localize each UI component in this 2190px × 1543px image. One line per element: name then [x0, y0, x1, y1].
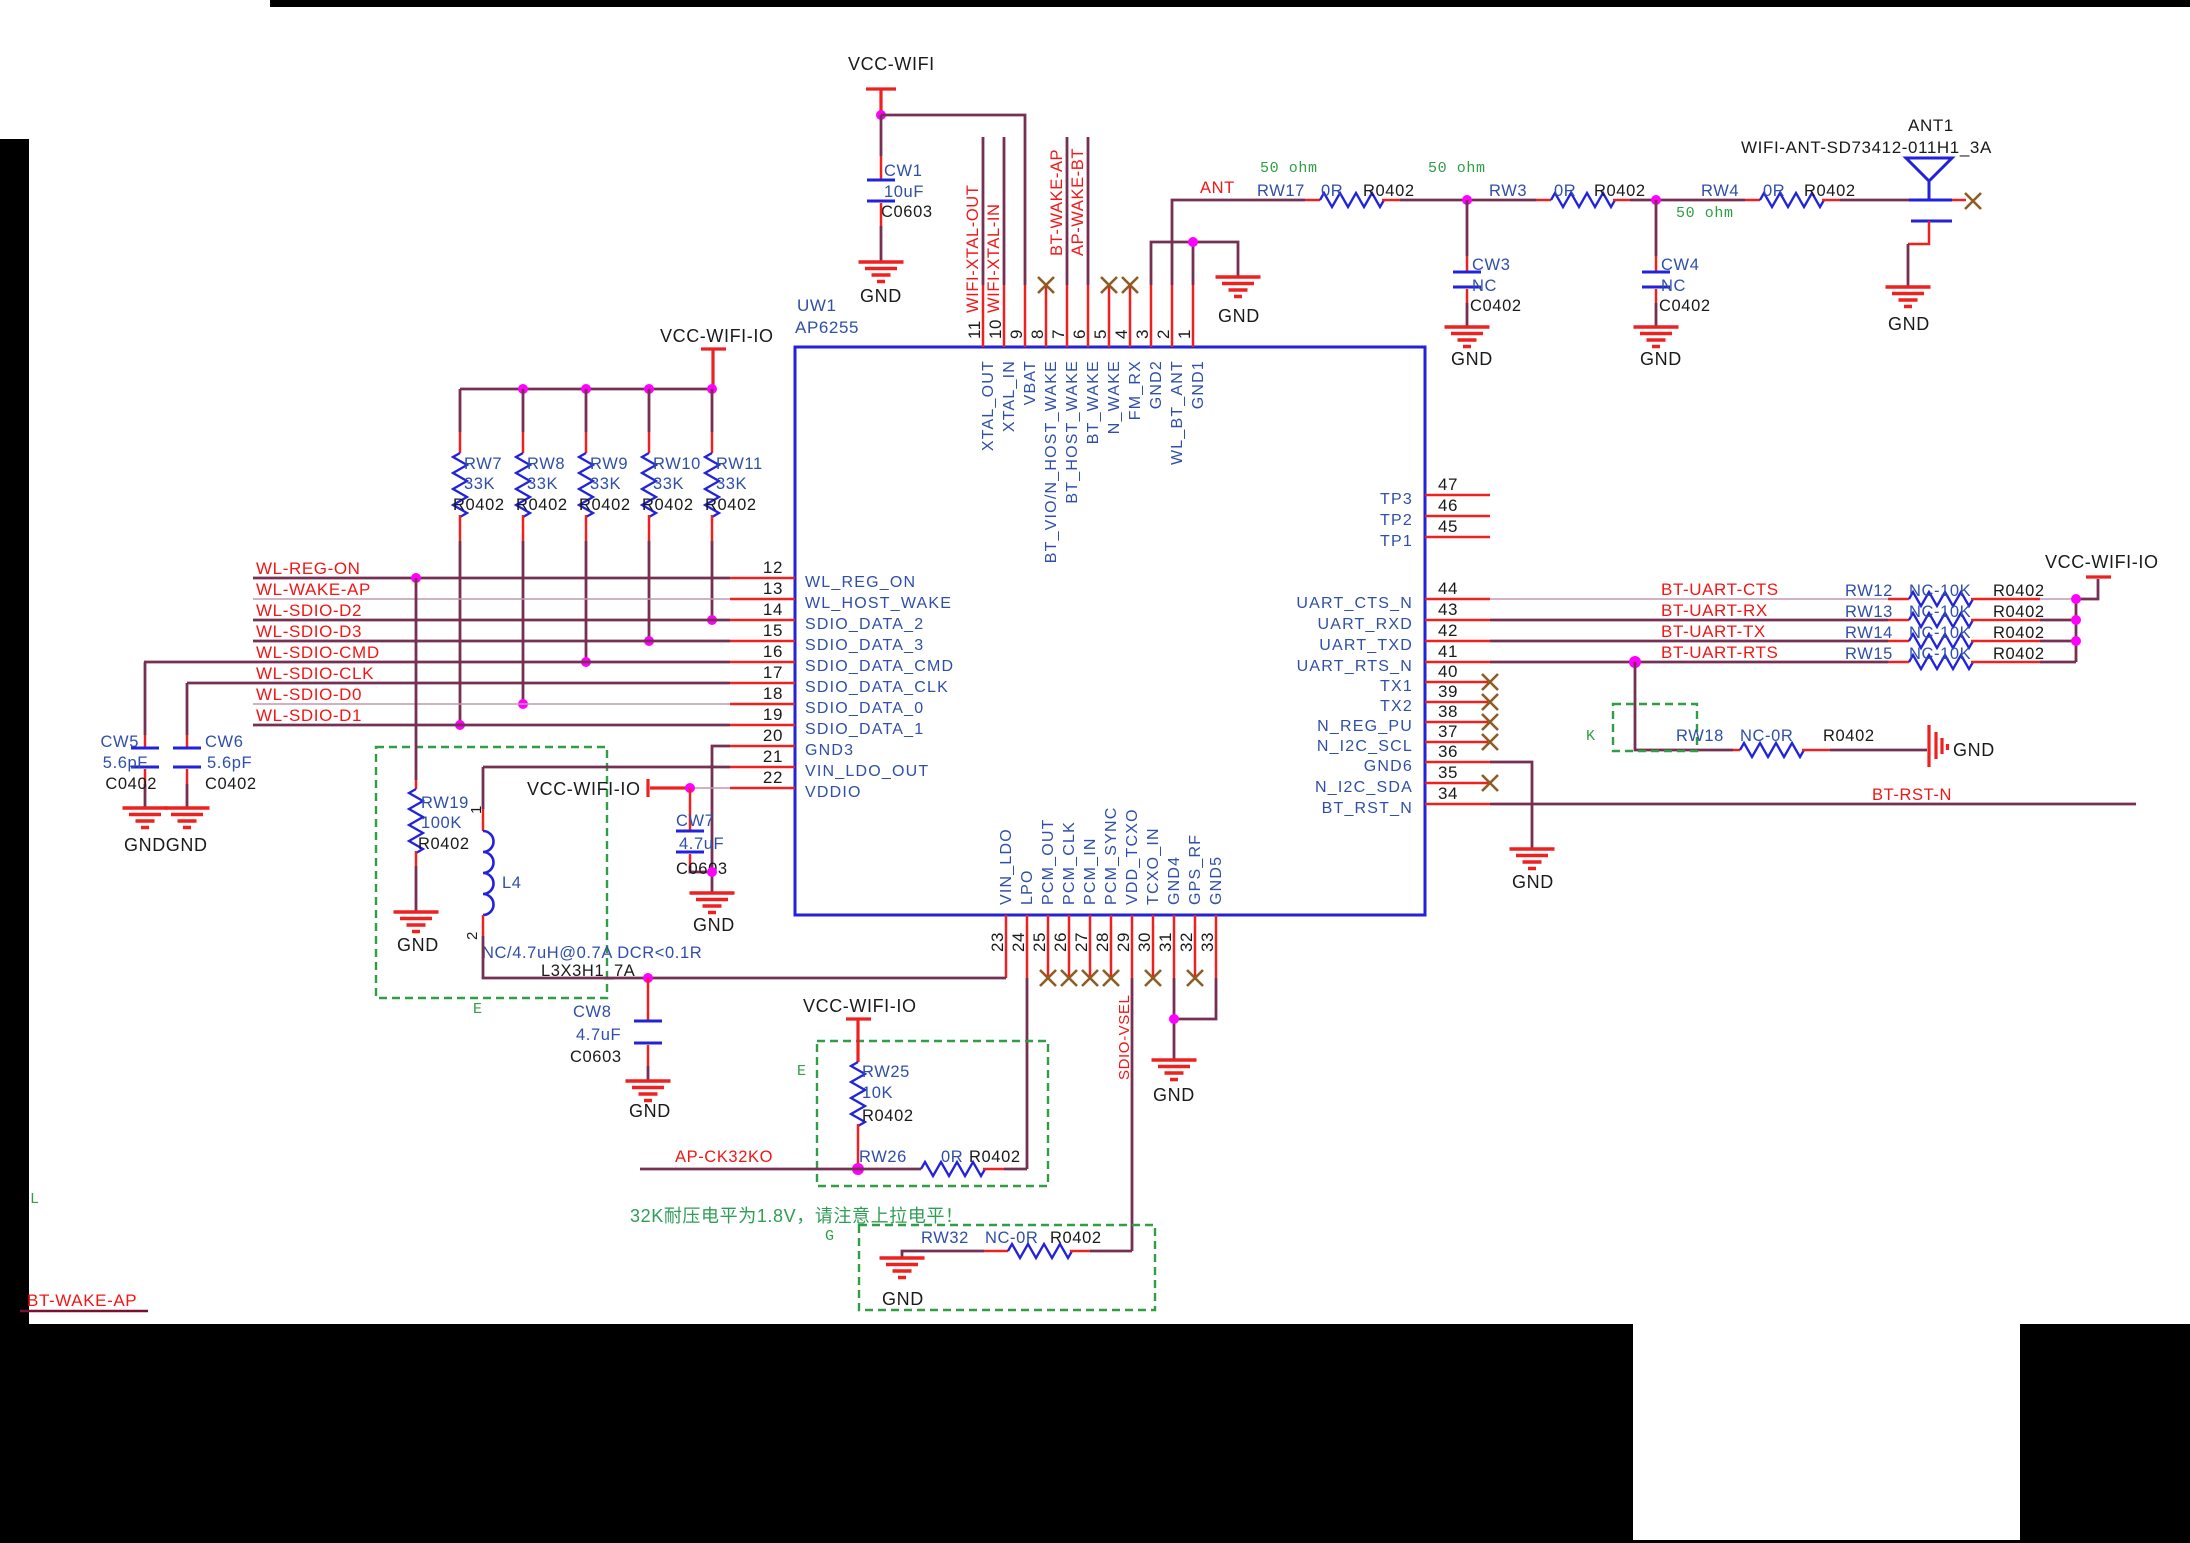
resistor RW32 NC-0R	[984, 1250, 1008, 1253]
pin 47 (TP3) stub	[1425, 494, 1490, 497]
wire pin 7 BT-WAKE-AP	[1066, 137, 1069, 285]
no-connect X pin 40	[1482, 674, 1498, 690]
svg-text:GND2: GND2	[1148, 360, 1165, 409]
svg-text:1: 1	[1175, 329, 1194, 339]
svg-text:RW10: RW10	[653, 455, 701, 473]
no-connect X pin 5	[1101, 277, 1117, 293]
ground below CW1	[859, 262, 904, 282]
pin 3 (GND2) stub	[1150, 285, 1153, 347]
svg-text:15: 15	[763, 621, 783, 640]
ground below CW5	[123, 808, 168, 828]
pin 28 (PCM_SYNC) stub	[1110, 915, 1113, 978]
wire pin 10 WIFI-XTAL-IN	[1003, 137, 1006, 285]
svg-text:VCC-WIFI-IO: VCC-WIFI-IO	[660, 326, 774, 346]
pin 15 (SDIO_DATA_3) stub	[730, 640, 795, 643]
pin 39 (TX2) stub	[1425, 701, 1490, 704]
power VCC-WIFI-IO symbol (VDDIO)	[648, 779, 690, 797]
node junction bus x=649	[644, 384, 654, 394]
svg-text:WIFI-ANT-SD73412-011H1_3A: WIFI-ANT-SD73412-011H1_3A	[1741, 138, 1992, 157]
pin 42 (UART_TXD) stub	[1425, 640, 1490, 643]
wire AP-CK32KO	[640, 1168, 921, 1171]
svg-text:NC-0R: NC-0R	[985, 1229, 1038, 1247]
wire WL-REG-ON	[253, 577, 730, 580]
svg-text:R0402: R0402	[453, 496, 505, 514]
op IC UW1 AP6255 body	[795, 347, 1425, 915]
node junction RW19 on WL-REG-ON	[411, 573, 421, 583]
ground RW18 (rotated)	[1929, 725, 1948, 767]
ground below CW4	[1634, 327, 1679, 347]
svg-text:CW8: CW8	[573, 1003, 611, 1021]
node VCC-WIFI junction	[876, 110, 886, 120]
svg-text:NC: NC	[1661, 277, 1686, 295]
svg-text:4.7uF: 4.7uF	[679, 835, 724, 853]
no-connect X pin 28	[1103, 970, 1119, 986]
svg-text:6: 6	[1070, 329, 1089, 339]
wire WL-WAKE-AP	[253, 598, 730, 600]
pin 36 (GND6) stub	[1425, 761, 1490, 764]
svg-text:RW3: RW3	[1489, 182, 1527, 200]
pin 13 (WL_HOST_WAKE) stub	[730, 598, 795, 601]
ground pins 3,1	[1216, 277, 1261, 297]
node junction pin 31 gnd	[1169, 1014, 1179, 1024]
svg-text:VCC-WIFI-IO: VCC-WIFI-IO	[527, 779, 641, 799]
wire RW8 down to signal row	[522, 541, 525, 704]
svg-text:BT-WAKE-AP: BT-WAKE-AP	[1048, 149, 1066, 256]
svg-text:33K: 33K	[653, 475, 684, 493]
svg-text:UW1: UW1	[797, 296, 837, 315]
svg-text:NC-10K: NC-10K	[1909, 603, 1971, 621]
svg-text:46: 46	[1438, 496, 1458, 515]
svg-text:GPS_RF: GPS_RF	[1187, 834, 1204, 905]
wire RW4 to antenna	[1840, 199, 1909, 202]
svg-text:GND: GND	[1888, 314, 1930, 334]
resistor RW14 NC-10K	[1888, 640, 1909, 643]
resistor RW10 33K pull-up	[648, 389, 651, 432]
pin 6 (BT_WAKE) stub	[1087, 285, 1090, 347]
ground below CW3	[1445, 327, 1490, 347]
pin 43 (UART_RXD) stub	[1425, 619, 1490, 622]
pin 35 (N_I2C_SDA) stub	[1425, 782, 1490, 785]
wire VCC-WIFI down to CW1	[880, 115, 883, 156]
inductor L4	[482, 767, 485, 809]
pin 24 (LPO) stub	[1026, 915, 1029, 978]
svg-text:TX1: TX1	[1380, 678, 1413, 695]
svg-text:BT-RST-N: BT-RST-N	[1872, 786, 1952, 804]
svg-text:5: 5	[1091, 329, 1110, 339]
svg-text:CW3: CW3	[1472, 256, 1510, 274]
wire RW11 down to signal row	[711, 541, 714, 620]
svg-text:50 ohm: 50 ohm	[1428, 160, 1486, 177]
node junction RW10 on row	[644, 636, 654, 646]
capacitor CW4 NC	[1655, 200, 1658, 256]
wire RW9 down to signal row	[585, 541, 588, 662]
pin 33 (GND5) stub	[1215, 915, 1218, 978]
pin 19 (SDIO_DATA_1) stub	[730, 724, 795, 727]
capacitor CW8 4.7uF	[647, 978, 650, 1020]
no-connect X pin 27	[1082, 970, 1098, 986]
svg-text:25: 25	[1030, 932, 1049, 952]
svg-text:TP3: TP3	[1380, 491, 1413, 508]
svg-text:G: G	[825, 1228, 835, 1245]
resistor RW8 33K pull-up	[522, 389, 525, 432]
svg-text:29: 29	[1114, 932, 1133, 952]
assembly box G (RW32)	[859, 1225, 1155, 1310]
svg-text:28: 28	[1093, 932, 1112, 952]
svg-text:C0402: C0402	[205, 775, 257, 793]
svg-text:36: 36	[1438, 742, 1458, 761]
assembly box E (RW25/RW26)	[817, 1041, 1048, 1186]
svg-text:GND5: GND5	[1208, 856, 1225, 905]
svg-text:32: 32	[1177, 932, 1196, 952]
svg-text:39: 39	[1438, 682, 1458, 701]
svg-text:VBAT: VBAT	[1022, 360, 1039, 405]
svg-text:R0402: R0402	[862, 1107, 914, 1125]
svg-text:K: K	[1586, 728, 1596, 745]
svg-text:26: 26	[1051, 932, 1070, 952]
svg-text:PCM_SYNC: PCM_SYNC	[1103, 806, 1120, 905]
svg-text:GND: GND	[1640, 349, 1682, 369]
svg-text:50 ohm: 50 ohm	[1260, 160, 1318, 177]
wire CW1 to GND	[880, 203, 883, 226]
svg-text:R0402: R0402	[579, 496, 631, 514]
pin 2 (WL_BT_ANT) stub	[1171, 285, 1174, 347]
svg-text:R0402: R0402	[1363, 182, 1415, 200]
node junction CW8	[643, 973, 653, 983]
assembly box E (RW19/L4)	[376, 747, 607, 998]
node junction bus x=712	[707, 384, 717, 394]
resistor RW9 33K pull-up	[585, 389, 588, 432]
svg-text:TX2: TX2	[1380, 698, 1413, 715]
svg-text:R0402: R0402	[1993, 645, 2045, 663]
wire BT-UART-RTS	[1490, 661, 1888, 664]
svg-text:TP1: TP1	[1380, 533, 1413, 550]
pin 5 (N_WAKE) stub	[1108, 285, 1111, 347]
svg-text:GND: GND	[397, 935, 439, 955]
svg-text:41: 41	[1438, 642, 1458, 661]
capacitor CW6 5.6pF	[186, 735, 189, 747]
no-connect X pin 37	[1482, 734, 1498, 750]
svg-text:BT_WAKE: BT_WAKE	[1085, 360, 1102, 444]
pin 34 (BT_RST_N) stub	[1425, 803, 1490, 806]
no-connect X pin 8	[1038, 277, 1054, 293]
svg-text:SDIO-VSEL: SDIO-VSEL	[1116, 995, 1133, 1080]
pin 44 (UART_CTS_N) stub	[1425, 598, 1490, 601]
svg-text:50 ohm: 50 ohm	[1676, 205, 1734, 222]
wire WL-SDIO-D0	[253, 703, 730, 705]
pin 25 (PCM_OUT) stub	[1047, 915, 1050, 978]
svg-text:VCC-WIFI-IO: VCC-WIFI-IO	[803, 996, 917, 1016]
wire BT-UART-TX	[1490, 640, 1888, 643]
svg-text:C0402: C0402	[105, 775, 157, 793]
svg-text:10K: 10K	[862, 1084, 893, 1102]
svg-text:GND: GND	[882, 1289, 924, 1309]
wire common vertical to VCC-WIFI-IO	[2076, 579, 2098, 662]
pin 4 (FM_RX) stub	[1129, 285, 1132, 347]
svg-text:11: 11	[965, 320, 984, 339]
svg-text:31: 31	[1156, 932, 1175, 952]
svg-text:47: 47	[1438, 475, 1458, 494]
pin 7 (BT_HOST_WAKE) stub	[1066, 285, 1069, 347]
svg-text:WL-SDIO-CLK: WL-SDIO-CLK	[256, 664, 374, 683]
svg-text:4.7uF: 4.7uF	[576, 1026, 621, 1044]
svg-text:LPO: LPO	[1019, 869, 1036, 905]
border strip bottom gap	[1633, 1540, 2020, 1543]
svg-text:3: 3	[1133, 329, 1152, 339]
svg-text:N_I2C_SCL: N_I2C_SCL	[1317, 738, 1413, 755]
no-connect X pin 4	[1122, 277, 1138, 293]
pin 11 (XTAL_OUT) stub	[982, 285, 985, 347]
svg-text:GND: GND	[1512, 872, 1554, 892]
svg-text:RW14: RW14	[1845, 624, 1893, 642]
svg-text:SDIO_DATA_CLK: SDIO_DATA_CLK	[805, 679, 949, 696]
svg-text:19: 19	[763, 705, 783, 724]
svg-text:GND: GND	[1953, 740, 1995, 760]
wire RW7 down to signal row	[459, 541, 462, 725]
svg-text:21: 21	[763, 747, 783, 766]
power VCC-WIFI-IO symbol (uart)	[2086, 575, 2111, 578]
pin 46 (TP2) stub	[1425, 515, 1490, 518]
wire WL-SDIO-D3	[253, 640, 730, 643]
wire pin 11 WIFI-XTAL-OUT	[982, 137, 985, 285]
pin 14 (SDIO_DATA_2) stub	[730, 619, 795, 622]
svg-text:37: 37	[1438, 722, 1458, 741]
wire pin 36 GND6 to ground	[1490, 762, 1532, 849]
svg-text:E: E	[797, 1063, 807, 1080]
svg-text:AP-CK32KO: AP-CK32KO	[675, 1148, 773, 1166]
node junction RW25/RW26	[852, 1163, 864, 1175]
svg-text:GND: GND	[693, 915, 735, 935]
svg-text:GND: GND	[1153, 1085, 1195, 1105]
svg-text:BT-UART-RX: BT-UART-RX	[1661, 601, 1768, 620]
resistor RW3 0R	[1536, 199, 1551, 202]
ground below CW8	[626, 1081, 671, 1101]
svg-text:R0402: R0402	[516, 496, 568, 514]
pin 31 (GND4) stub	[1173, 915, 1176, 978]
resistor RW25 10K	[851, 1062, 865, 1126]
power VCC-WIFI symbol	[866, 89, 896, 113]
wire WL-SDIO-D2	[253, 619, 730, 622]
svg-text:N_I2C_SDA: N_I2C_SDA	[1315, 779, 1413, 796]
pin 38 (N_REG_PU) stub	[1425, 721, 1490, 724]
svg-text:45: 45	[1438, 517, 1458, 536]
no-connect X pin 38	[1482, 714, 1498, 730]
svg-text:N_WAKE: N_WAKE	[1106, 360, 1123, 434]
wire VCC-WIFI to pin 9 VBAT	[881, 115, 1025, 285]
svg-text:16: 16	[763, 642, 783, 661]
svg-text:22: 22	[763, 768, 783, 787]
svg-text:100K: 100K	[421, 814, 462, 832]
svg-text:RW18: RW18	[1676, 727, 1724, 745]
node junction RW11 on row	[707, 615, 717, 625]
resistor RW7 33K pull-up	[459, 389, 462, 432]
border block bottom-right	[2020, 1324, 2190, 1543]
pin 10 (XTAL_IN) stub	[1003, 285, 1006, 347]
ground below antenna	[1886, 287, 1931, 307]
pin 23 (VIN_LDO) stub	[1005, 915, 1008, 978]
pin 30 (TCXO_IN) stub	[1152, 915, 1155, 978]
svg-text:WIFI-XTAL-IN: WIFI-XTAL-IN	[985, 203, 1003, 313]
svg-text:7: 7	[1049, 329, 1068, 339]
svg-text:CW7: CW7	[676, 812, 714, 830]
svg-text:33K: 33K	[716, 475, 747, 493]
wire RW26 to pin 24	[1004, 1168, 1027, 1171]
node junction pins 3,1 gnd	[1188, 237, 1198, 247]
pin 21 (VIN_LDO_OUT) stub	[730, 766, 795, 769]
capacitor CW1	[867, 180, 895, 201]
wire WL-SDIO-D1	[253, 724, 730, 727]
pin 40 (TX1) stub	[1425, 681, 1490, 684]
pin 32 (GPS_RF) stub	[1194, 915, 1197, 978]
power VCC-WIFI-IO symbol (pull-ups)	[701, 349, 726, 387]
wire pin 21 VIN_LDO_OUT to L4	[483, 766, 730, 769]
svg-text:WL-REG-ON: WL-REG-ON	[256, 559, 361, 578]
node junction uart pull x=2076 y=641	[2071, 636, 2081, 646]
svg-text:RW7: RW7	[464, 455, 502, 473]
resistor RW18 NC-0R	[1733, 749, 1740, 752]
svg-text:BT-UART-RTS: BT-UART-RTS	[1661, 643, 1778, 662]
svg-text:14: 14	[763, 600, 783, 619]
svg-text:20: 20	[763, 726, 783, 745]
svg-text:R0402: R0402	[642, 496, 694, 514]
svg-text:GND4: GND4	[1166, 856, 1183, 905]
border bar top	[270, 0, 2190, 7]
pin 9 (VBAT) stub	[1024, 285, 1027, 347]
pin 16 (SDIO_DATA_CMD) stub	[730, 661, 795, 664]
svg-text:WL-SDIO-D2: WL-SDIO-D2	[256, 601, 362, 620]
svg-text:R0402: R0402	[418, 835, 470, 853]
svg-text:VDDIO: VDDIO	[805, 784, 862, 801]
resistor RW11 33K pull-up	[711, 389, 714, 432]
wire pull-up bus	[460, 388, 712, 391]
pin 18 (SDIO_DATA_0) stub	[730, 703, 795, 706]
svg-text:44: 44	[1438, 579, 1458, 598]
svg-text:VIN_LDO: VIN_LDO	[998, 828, 1015, 905]
node junction RW18 branch	[1629, 656, 1641, 668]
wire RW10 down to signal row	[648, 541, 651, 641]
node junction uart pull x=2076 y=620	[2071, 615, 2081, 625]
svg-text:WL-SDIO-D1: WL-SDIO-D1	[256, 706, 362, 725]
svg-text:E: E	[473, 1001, 483, 1018]
wire L4 bottom to pin 23 VIN_LDO	[483, 936, 1006, 978]
svg-text:VCC-WIFI-IO: VCC-WIFI-IO	[2045, 552, 2159, 572]
node junction bus x=586	[581, 384, 591, 394]
svg-text:VIN_LDO_OUT: VIN_LDO_OUT	[805, 763, 929, 780]
svg-text:8: 8	[1028, 329, 1047, 339]
node junction RW9 on row	[581, 657, 591, 667]
svg-text:GND: GND	[860, 286, 902, 306]
wire pin 22 VDDIO	[690, 787, 730, 789]
svg-text:GNDGND: GNDGND	[124, 835, 208, 855]
svg-text:WL_REG_ON: WL_REG_ON	[805, 574, 916, 591]
wire BT-UART-CTS	[1490, 598, 1888, 600]
node junction bus x=523	[518, 384, 528, 394]
wire ANT from pin 2	[1172, 200, 1305, 285]
svg-text:0R: 0R	[1763, 182, 1785, 200]
svg-text:RW26: RW26	[859, 1148, 907, 1166]
wire WL-SDIO-CMD	[144, 661, 730, 664]
svg-text:RW13: RW13	[1845, 603, 1893, 621]
svg-text:NC-10K: NC-10K	[1909, 582, 1971, 600]
svg-text:AP-WAKE-BT: AP-WAKE-BT	[1069, 148, 1087, 256]
svg-text:5.6pF: 5.6pF	[103, 754, 148, 772]
wire RW17 to RW3	[1400, 199, 1536, 202]
svg-text:BT_VIO/N_HOST_WAKE: BT_VIO/N_HOST_WAKE	[1043, 360, 1060, 563]
svg-text:9: 9	[1007, 329, 1026, 339]
svg-text:32K耐压电平为1.8V，请注意上拉电平！: 32K耐压电平为1.8V，请注意上拉电平！	[630, 1206, 964, 1226]
svg-text:R0402: R0402	[705, 496, 757, 514]
svg-text:18: 18	[763, 684, 783, 703]
svg-text:WL_HOST_WAKE: WL_HOST_WAKE	[805, 595, 952, 612]
svg-text:PCM_IN: PCM_IN	[1082, 837, 1099, 905]
pin 8 (BT_VIO/N_HOST_WAKE) stub	[1045, 285, 1048, 347]
svg-text:4: 4	[1112, 329, 1131, 339]
svg-text:43: 43	[1438, 600, 1458, 619]
svg-text:AP6255: AP6255	[795, 318, 859, 337]
svg-text:12: 12	[763, 558, 783, 577]
svg-text:UART_CTS_N: UART_CTS_N	[1296, 595, 1413, 612]
ground below CW6	[165, 808, 210, 828]
wire BT-UART-RX	[1490, 619, 1888, 622]
svg-text:WL-SDIO-CMD: WL-SDIO-CMD	[256, 643, 380, 662]
svg-text:27: 27	[1072, 932, 1091, 952]
no-connect X pin 39	[1482, 694, 1498, 710]
svg-text:BT_HOST_WAKE: BT_HOST_WAKE	[1064, 360, 1081, 504]
svg-text:R0402: R0402	[1594, 182, 1646, 200]
svg-text:35: 35	[1438, 763, 1458, 782]
svg-text:38: 38	[1438, 702, 1458, 721]
svg-text:NC/4.7uH@0.7A DCR<0.1R: NC/4.7uH@0.7A DCR<0.1R	[482, 944, 702, 962]
svg-text:N_REG_PU: N_REG_PU	[1317, 718, 1413, 735]
svg-text:R0402: R0402	[1993, 603, 2045, 621]
svg-text:CW5: CW5	[101, 733, 139, 751]
svg-text:33K: 33K	[590, 475, 621, 493]
svg-text:WL_BT_ANT: WL_BT_ANT	[1169, 360, 1186, 465]
svg-text:UART_TXD: UART_TXD	[1319, 637, 1413, 654]
svg-text:BT-UART-TX: BT-UART-TX	[1661, 622, 1766, 641]
svg-text:RW17: RW17	[1257, 182, 1305, 200]
svg-text:NC: NC	[1472, 277, 1497, 295]
wire WL-SDIO-CMD to CW5	[144, 662, 147, 735]
svg-text:L4: L4	[502, 874, 522, 892]
node junction RW7 on row	[455, 720, 465, 730]
svg-text:WL-WAKE-AP: WL-WAKE-AP	[256, 580, 371, 599]
pin 20 (GND3) stub	[730, 745, 795, 748]
svg-text:0R: 0R	[941, 1148, 963, 1166]
wire RW32 row	[902, 1251, 984, 1258]
node junction VDDIO	[685, 783, 695, 793]
svg-text:42: 42	[1438, 621, 1458, 640]
node junction CW7/GND3	[707, 867, 717, 877]
svg-text:RW19: RW19	[421, 794, 469, 812]
svg-text:0R: 0R	[1554, 182, 1576, 200]
svg-text:RW15: RW15	[1845, 645, 1893, 663]
svg-text:1: 1	[468, 805, 485, 814]
pin 22 (VDDIO) stub	[730, 787, 795, 790]
svg-text:17: 17	[763, 663, 783, 682]
wire WL-SDIO-CLK to CW6	[186, 683, 189, 735]
svg-text:NC-10K: NC-10K	[1909, 624, 1971, 642]
ground RW32	[880, 1258, 925, 1278]
svg-text:CW1: CW1	[884, 162, 922, 180]
svg-text:C0603: C0603	[570, 1048, 622, 1066]
pin 12 (WL_REG_ON) stub	[730, 577, 795, 580]
svg-text:SDIO_DATA_0: SDIO_DATA_0	[805, 700, 924, 717]
svg-text:13: 13	[763, 579, 783, 598]
svg-text:23: 23	[988, 932, 1007, 952]
power VCC-WIFI-IO symbol (RW25)	[846, 1019, 871, 1062]
svg-text:0R: 0R	[1321, 182, 1343, 200]
svg-text:GND1: GND1	[1190, 360, 1207, 409]
